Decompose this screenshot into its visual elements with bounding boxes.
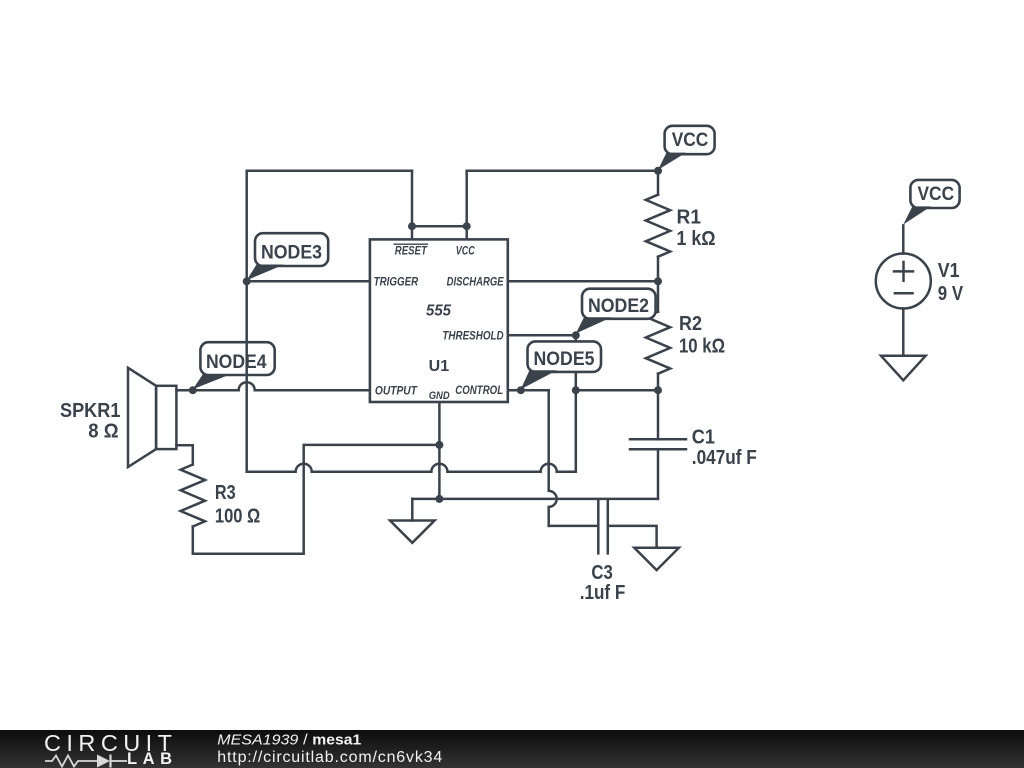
svg-text:1 kΩ: 1 kΩ	[677, 228, 716, 250]
svg-text:NODE2: NODE2	[588, 296, 649, 317]
node dot NODE5 attach	[517, 386, 525, 394]
svg-text:555: 555	[426, 302, 452, 319]
wire R1 top lead	[657, 171, 660, 195]
net flag NODE5	[521, 341, 601, 389]
wire trigger-threshold tie with hops	[247, 464, 576, 472]
node dot NODE3 attach	[243, 277, 251, 285]
wire C1 bottom lead	[657, 449, 660, 499]
svg-text:RESET: RESET	[395, 243, 428, 257]
capacitor C1 plates	[630, 439, 686, 449]
wire TRIGGER pin 2	[247, 280, 370, 283]
svg-text:R2: R2	[679, 313, 702, 335]
node dot NODE2 attach	[572, 331, 580, 339]
wire RESET-VCC link	[412, 225, 467, 228]
svg-text:8 Ω: 8 Ω	[88, 421, 118, 443]
svg-text:.047uf F: .047uf F	[692, 447, 757, 469]
node dot discharge R1R2	[654, 277, 662, 285]
svg-text:CONTROL: CONTROL	[455, 383, 503, 397]
svg-text:R1: R1	[677, 207, 702, 229]
node dot R2 C1	[654, 386, 662, 394]
net flag NODE2	[576, 289, 656, 334]
wire C1 top lead	[657, 390, 660, 439]
resistor R1 body	[646, 195, 670, 257]
voltage source V1 circle	[876, 254, 931, 309]
wire NODE3 riser over NODE4 box	[245, 341, 248, 377]
svg-text:.1uf F: .1uf F	[580, 582, 626, 604]
node dot gnd run	[435, 495, 443, 503]
wire V1 top lead	[902, 225, 905, 253]
svg-text:SPKR1: SPKR1	[60, 400, 120, 422]
wire R3 return to gnd pin	[193, 445, 440, 554]
svg-text:C1: C1	[692, 427, 715, 449]
svg-text:DISCHARGE: DISCHARGE	[447, 275, 505, 289]
node dot NODE4 attach	[189, 386, 197, 394]
svg-text:VCC: VCC	[918, 184, 955, 205]
junction dots	[189, 167, 662, 503]
wire NODE3 riser lower	[245, 281, 248, 471]
component value labels	[60, 207, 964, 605]
node dot vcc flag	[654, 167, 662, 175]
V1 minus sign	[895, 292, 913, 295]
ground symbol g2	[634, 548, 679, 570]
wire CONTROL pin 5	[508, 389, 549, 392]
speaker SPKR1 driver	[156, 386, 176, 449]
wire riser to threshold	[575, 335, 578, 471]
svg-text:NODE5: NODE5	[534, 349, 595, 370]
wire VCC top run	[467, 170, 658, 173]
wire C3 left lead	[549, 525, 597, 528]
wire ground run under IC	[412, 498, 658, 501]
svg-text:NODE3: NODE3	[261, 242, 322, 263]
svg-text:OUTPUT: OUTPUT	[375, 384, 418, 398]
wire VCC riser pin 8	[465, 171, 468, 240]
node dot reset	[408, 222, 416, 230]
ground symbol g3	[881, 356, 926, 381]
node dot threshold riser	[572, 386, 580, 394]
wire V1 bottom lead	[902, 309, 905, 356]
node dot vcc pin	[463, 222, 471, 230]
net flag VCC right	[903, 180, 959, 225]
node dot gnd pin tee	[435, 441, 443, 449]
IC U1 pin labels	[374, 243, 505, 401]
svg-text:NODE4: NODE4	[206, 352, 267, 373]
svg-text:VCC: VCC	[456, 243, 475, 257]
capacitor C3 plates	[598, 499, 608, 553]
node flags	[193, 126, 960, 389]
svg-text:C3: C3	[591, 562, 613, 584]
wire RESET riser pin 4	[411, 171, 414, 240]
resistor R3 body	[181, 465, 205, 527]
wire C3 right lead	[609, 526, 657, 548]
svg-text:THRESHOLD: THRESHOLD	[442, 328, 503, 342]
wire R1 bottom lead	[657, 257, 660, 282]
wire R2 top lead	[657, 281, 660, 311]
resistor R2 body	[646, 312, 670, 374]
wire THRESHOLD pin 6	[508, 334, 576, 337]
wire speaker bottom lead	[176, 445, 192, 464]
svg-text:MESA1939 / mesa1: MESA1939 / mesa1	[217, 732, 361, 749]
footer bar	[0, 730, 1024, 768]
wire node2 to R2C1 junction	[576, 389, 658, 392]
V1 plus sign	[894, 262, 913, 281]
wire top-left RESET run	[247, 171, 412, 281]
svg-text:10 kΩ: 10 kΩ	[679, 336, 725, 358]
wire GND pin 1	[438, 402, 441, 499]
svg-text:R3: R3	[215, 482, 236, 504]
net flag NODE3	[247, 233, 329, 280]
net flag VCC top	[658, 126, 715, 170]
svg-text:GND: GND	[429, 390, 450, 402]
op-amp U1 555 IC body	[370, 239, 508, 402]
svg-text:9 V: 9 V	[938, 283, 964, 305]
wire DISCHARGE pin 7	[508, 280, 658, 283]
ground symbol g1	[390, 521, 435, 543]
RESET overline	[394, 243, 429, 245]
speaker SPKR1 horn	[128, 368, 156, 467]
wire OUTPUT pin 3 with hop	[176, 382, 370, 390]
svg-text:LAB: LAB	[127, 750, 172, 768]
net flag NODE4	[193, 341, 275, 389]
wire control riser with hop	[549, 390, 557, 526]
wire ground stub	[411, 499, 414, 521]
svg-text:V1: V1	[938, 260, 960, 282]
svg-text:TRIGGER: TRIGGER	[374, 275, 419, 289]
svg-text:100 Ω: 100 Ω	[215, 505, 260, 527]
svg-text:U1: U1	[429, 358, 450, 375]
logo resistor-diode glyph	[45, 756, 127, 767]
svg-text:VCC: VCC	[672, 130, 709, 151]
wire R2 bottom lead	[657, 374, 660, 391]
svg-text:http://circuitlab.com/cn6vk34: http://circuitlab.com/cn6vk34	[217, 749, 442, 766]
